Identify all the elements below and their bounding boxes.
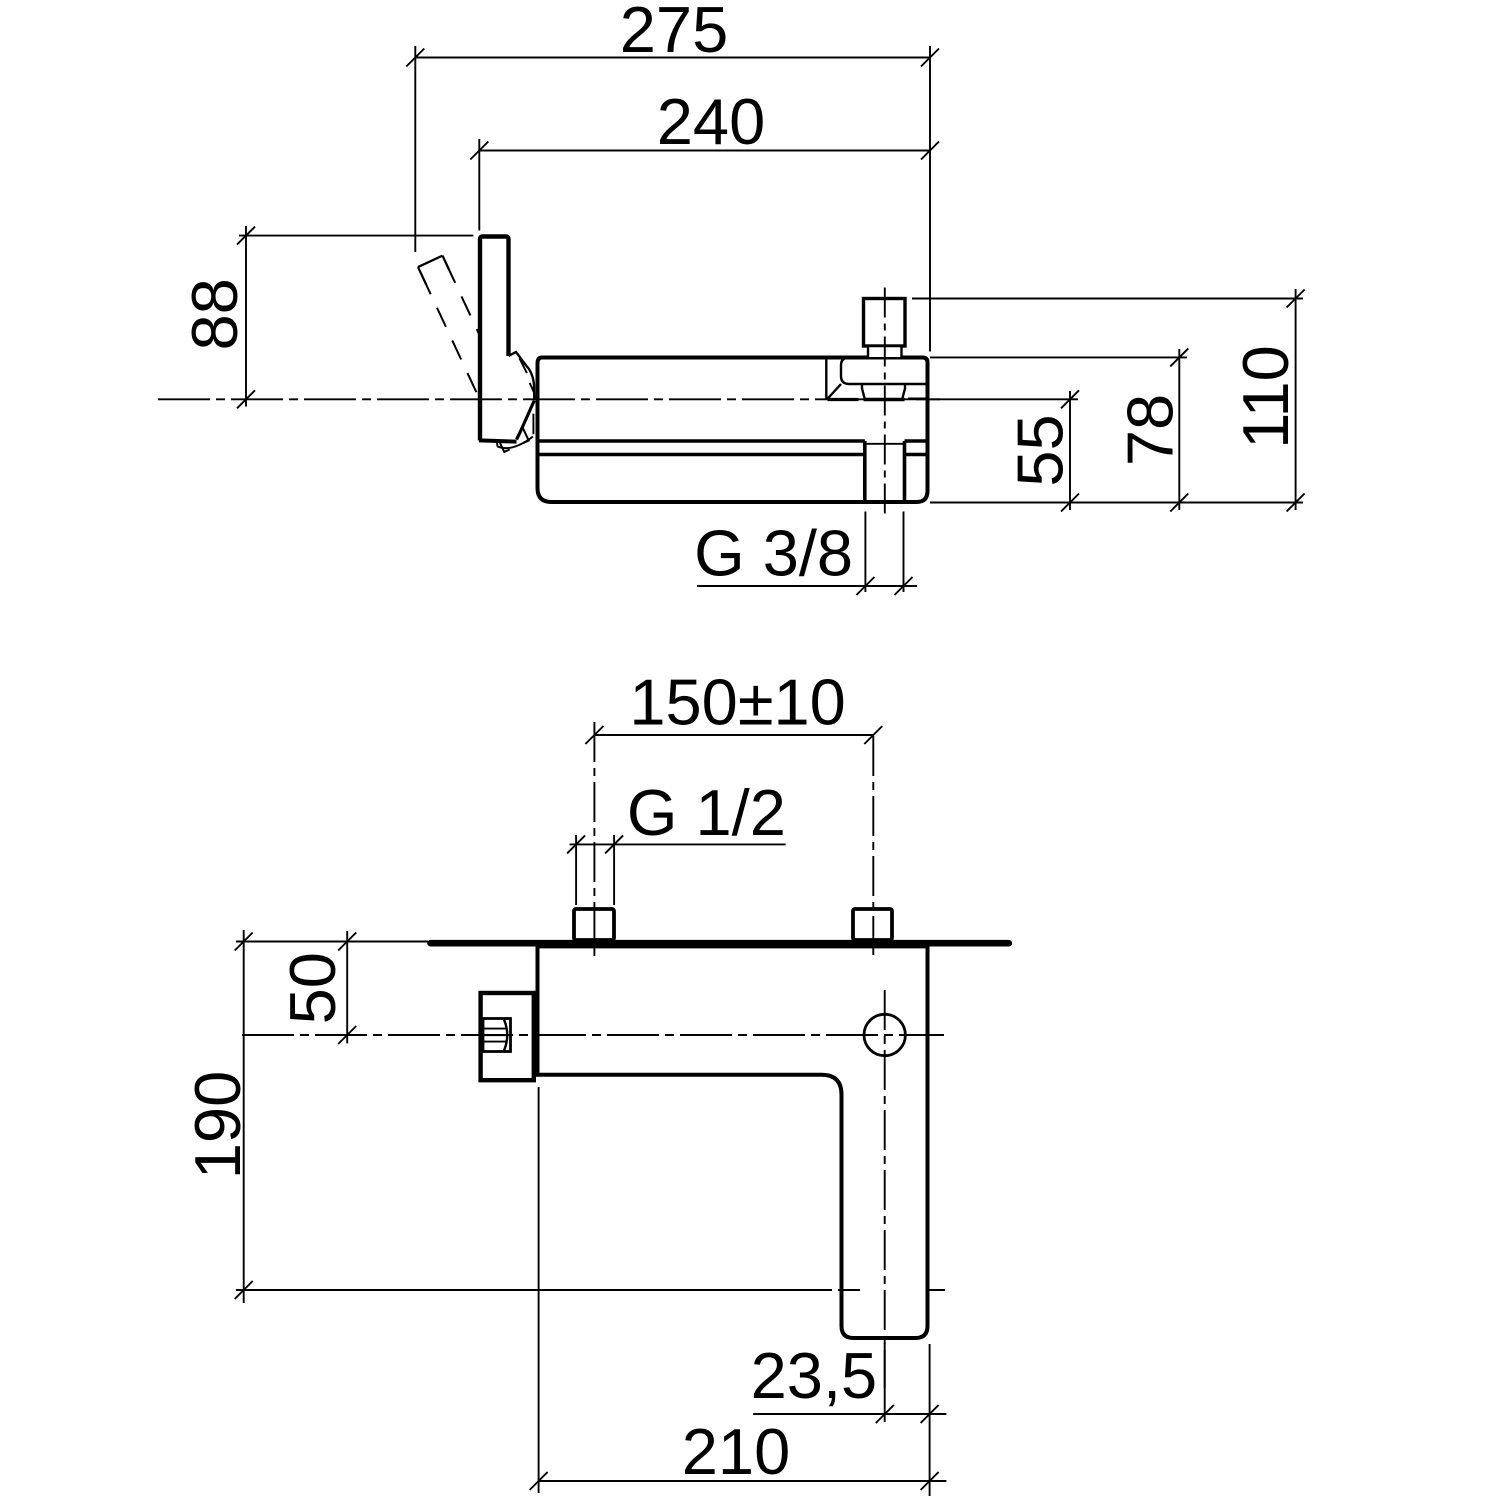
dimension 210: dim line: [530, 1472, 947, 1490]
dimension 210: extension line left: [538, 1087, 540, 1493]
svg-text:88: 88: [178, 278, 251, 350]
svg-text:23,5: 23,5: [751, 1339, 878, 1412]
inlet connector block (side view top): [864, 299, 906, 347]
dimension G 1/2: dim line: [567, 835, 786, 853]
handle end detail (plan view): [483, 1019, 511, 1052]
dimension 110: top extension line: [912, 298, 1303, 300]
set screw hole (plan view): [864, 1014, 905, 1055]
body outline (plan view): [538, 946, 928, 1338]
dimension G 3/8: extension lines: [865, 512, 903, 593]
spout centerline (plan view): [884, 990, 886, 1388]
svg-text:190: 190: [181, 1071, 254, 1179]
svg-text:150±10: 150±10: [629, 665, 845, 738]
svg-text:110: 110: [1229, 345, 1302, 449]
dimension 55: top extension line: [916, 398, 1078, 400]
dimension 240: dim line: [470, 142, 939, 160]
handle swing arc (dashed): [496, 436, 533, 449]
svg-text:55: 55: [1004, 414, 1077, 486]
handle bar bottom edge: [479, 440, 517, 441]
inlet connector neck: [868, 346, 902, 357]
internal outlet nut (side view): [862, 384, 905, 398]
dimension 275: dim line: [406, 49, 939, 67]
dimension G 3/8: dim line: [697, 577, 917, 595]
wall plate (plan view): [431, 940, 1009, 947]
internal chamfer edge: [827, 384, 841, 399]
internal lower thick edge left: [828, 398, 859, 401]
centerline (bottom view horizontal axis): [242, 1034, 944, 1036]
svg-text:G 3/8: G 3/8: [694, 517, 853, 590]
right fitting centerline: [872, 736, 874, 955]
left fitting centerline: [593, 722, 595, 956]
svg-text:78: 78: [1114, 394, 1187, 466]
dimension 110: dim line: [1287, 289, 1305, 512]
svg-text:275: 275: [620, 0, 728, 66]
body outline (side view): [538, 358, 928, 503]
dimension 50/190: top extension line: [236, 941, 428, 943]
internal vertical edge: [825, 358, 827, 400]
centerline (top view horizontal axis): [158, 398, 941, 400]
body divider line upper (side view): [538, 439, 928, 443]
dimension G 1/2: extension lines: [576, 835, 614, 905]
svg-text:G 1/2: G 1/2: [627, 776, 786, 849]
dimension 78: dim line: [1170, 348, 1188, 511]
wedge hatch bottom: [532, 414, 534, 435]
dimension 150±10: dim line: [585, 726, 882, 744]
wedge lower thick diagonal: [517, 401, 535, 440]
dimensions 55/78/110: bottom extension line: [930, 502, 1303, 504]
G3/8 connection nut (side view lower): [865, 441, 905, 502]
body divider line lower (side view): [538, 453, 928, 457]
svg-text:50: 50: [276, 952, 349, 1024]
internal thin edge right: [908, 398, 927, 400]
dimension 23,5: extension line center: [884, 1343, 886, 1422]
dimension 275/240: right extension line: [929, 46, 931, 352]
dimension 240: left extension line: [478, 139, 480, 231]
wedge hatch top: [519, 358, 534, 392]
dimension 78: top extension line: [930, 356, 1187, 358]
dimension 50: dim line: [338, 931, 356, 1044]
lever handle (plan view): [481, 993, 534, 1080]
lever handle bar fill (closed position, side view): [480, 237, 534, 442]
dimension 55: dim line: [1061, 390, 1079, 511]
dimension 88: top extension line: [239, 235, 473, 237]
dashed open-position lever handle: [418, 256, 529, 452]
lever handle bar (closed position, side view): [480, 237, 509, 441]
left G1/2 fitting (plan view): [574, 909, 614, 940]
dimension 190: bottom extension line: [236, 1289, 945, 1291]
dimension 23,5: dim line: [753, 1405, 946, 1423]
handle base wedge (side view): [509, 352, 535, 399]
dimension 88: dim line: [237, 226, 255, 408]
svg-text:210: 210: [682, 1415, 790, 1488]
svg-text:240: 240: [657, 85, 765, 158]
internal cartridge housing (side view): [841, 358, 928, 385]
right G1/2 fitting (plan view): [853, 909, 892, 940]
dimension 23,5: extension line right: [929, 1344, 931, 1496]
dimension 190: dim line: [235, 930, 253, 1303]
inlet centerline (top view vertical, G3/8 axis): [884, 288, 886, 517]
dimension 275: left extension line: [414, 46, 416, 252]
